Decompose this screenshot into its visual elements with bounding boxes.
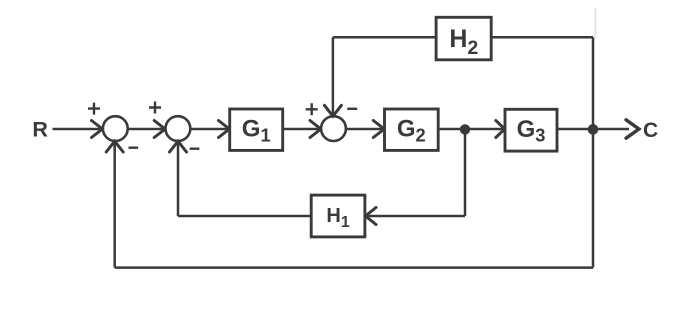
plus sign at S2 input (149, 102, 161, 114)
svg-text:C: C (643, 119, 658, 142)
node dot between G2 and G3 (460, 124, 470, 134)
plus sign at S3 input (306, 103, 318, 115)
minus sign at S3 feedback (347, 108, 357, 110)
summing junction S1 (103, 116, 128, 141)
block H1 (311, 195, 365, 237)
wire H1 level right segment (367, 215, 465, 218)
wire down into S3 (332, 37, 335, 115)
wire S1 to summing junction S2 (128, 128, 164, 131)
block G3 (505, 109, 557, 151)
minus sign at S1 feedback (129, 146, 139, 148)
wire G2 to block G3 (438, 128, 503, 131)
arrowhead into S3 (310, 121, 321, 138)
block H2 (436, 17, 491, 60)
arrowhead up into S1 (106, 141, 123, 152)
wire output node up to H2 level (592, 37, 595, 129)
wire up into S1 (113, 142, 116, 267)
arrowhead into S1 (92, 121, 103, 138)
outer loop bottom wire (115, 266, 593, 269)
wire S2 to block G1 (191, 128, 228, 131)
arrowhead into G2 (373, 121, 384, 138)
plus sign at S1 input (88, 103, 100, 115)
arrowhead down into S3 (324, 105, 341, 116)
faint scan artifact line top right (595, 8, 597, 37)
block G2 (385, 109, 439, 150)
wire S3 to block G2 (346, 128, 382, 131)
summing junction S2 (166, 116, 191, 141)
arrowhead into G3 (496, 121, 505, 138)
summing junction S3 (321, 116, 346, 141)
wire H1 left segment (178, 215, 311, 218)
arrowhead into S2 (154, 121, 165, 138)
output node dot (588, 124, 599, 135)
svg-text:R: R (32, 118, 48, 142)
wire G3 to output C (557, 128, 629, 131)
wire node down to H1 level (464, 129, 467, 216)
arrowhead up into S2 (170, 141, 187, 152)
arrowhead to C (626, 120, 639, 138)
arrowhead left into H1 (366, 208, 377, 225)
wire G1 to summing junction S3 (283, 128, 319, 131)
wire H2 level right segment (491, 36, 593, 39)
arrowhead into G1 (219, 121, 230, 138)
minus sign at S2 feedback (190, 147, 200, 149)
block G1 (230, 109, 283, 150)
wire H2 left segment (333, 36, 436, 39)
wire up into S2 (177, 142, 180, 216)
wire output node down to outer loop (592, 129, 595, 268)
wire R to summing junction S1 (53, 128, 101, 131)
